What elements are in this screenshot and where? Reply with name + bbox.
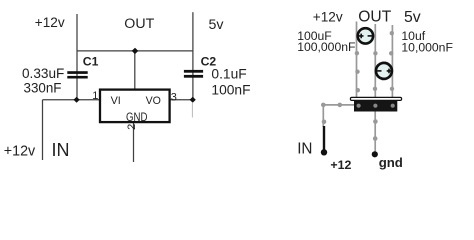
svg-text:OUT: OUT	[358, 9, 391, 26]
svg-text:C1: C1	[83, 55, 99, 69]
svg-text:0.1uF: 0.1uF	[211, 66, 246, 81]
svg-text:+12: +12	[330, 158, 351, 172]
svg-text:330nF: 330nF	[24, 80, 62, 95]
svg-text:5v: 5v	[404, 9, 421, 26]
svg-text:+12v: +12v	[4, 144, 36, 160]
svg-text:1: 1	[92, 90, 98, 102]
svg-text:gnd: gnd	[379, 155, 403, 170]
svg-text:GND: GND	[126, 110, 148, 124]
svg-text:0.33uF: 0.33uF	[22, 66, 64, 81]
svg-text:5v: 5v	[209, 17, 225, 33]
svg-text:IN: IN	[297, 141, 312, 158]
svg-text:10,000nF: 10,000nF	[401, 40, 453, 54]
svg-text:IN: IN	[52, 140, 70, 160]
svg-text:+12v: +12v	[313, 9, 343, 24]
svg-text:VI: VI	[111, 95, 121, 107]
svg-text:+12v: +12v	[35, 15, 65, 30]
svg-text:2: 2	[126, 124, 138, 130]
svg-text:3: 3	[171, 92, 177, 104]
svg-text:100nF: 100nF	[211, 82, 250, 97]
svg-text:VO: VO	[146, 95, 161, 107]
svg-text:100,000nF: 100,000nF	[297, 40, 355, 54]
svg-text:OUT: OUT	[124, 16, 154, 32]
